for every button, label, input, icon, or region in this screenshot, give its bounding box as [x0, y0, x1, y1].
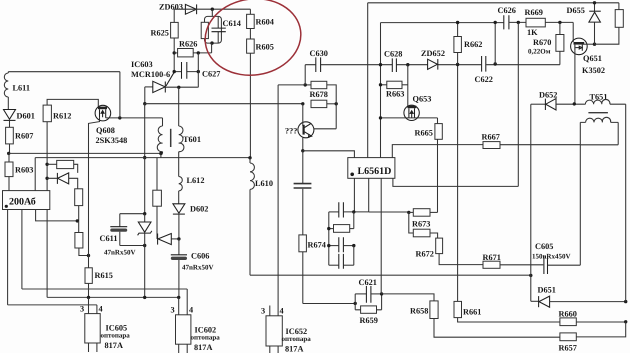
wire top cluster y=9.2 — [174, 8, 250, 10]
svg-text:L610: L610 — [255, 179, 273, 188]
svg-text:D651: D651 — [538, 286, 556, 295]
wire 200A6 pin to bus line1 — [21, 210, 23, 290]
diode bridge-D (unlabeled) — [47, 173, 78, 189]
svg-text:R625: R625 — [151, 29, 169, 38]
wire 200A6 pin jog to rectifier column — [36, 210, 78, 221]
node C614 top feed — [211, 8, 214, 11]
diode D602 — [173, 204, 209, 239]
node line2/IC602 pin3 — [177, 296, 180, 299]
bus line3 y=304.9 — [8, 304, 97, 306]
node Q608 drain / snubber feed — [118, 116, 121, 119]
node Q651 source / T651 primary — [573, 102, 576, 105]
resistor R663 — [381, 81, 408, 98]
node D651 right on HV column — [624, 300, 627, 303]
svg-text:ZD652: ZD652 — [421, 49, 445, 58]
node D602/C606 junction — [177, 237, 180, 240]
wire L6561D right pin to feedback column — [393, 178, 518, 186]
svg-text:оптопара: оптопара — [191, 334, 221, 342]
svg-text:IC603: IC603 — [131, 60, 153, 69]
svg-text:3: 3 — [171, 306, 175, 315]
node T601 primary bottom on bus — [159, 152, 162, 155]
fuse box 200A6 — [3, 191, 50, 210]
zener diode ZD603 — [159, 3, 197, 15]
wire thyristor anode drop to main h-wire — [144, 87, 146, 104]
svg-text:D602: D602 — [190, 205, 208, 214]
svg-text:Q653: Q653 — [413, 95, 432, 104]
node ZD652 left / gate column — [406, 63, 409, 66]
wire L6561D pin riser x=381 lower — [380, 178, 382, 294]
transistor Q653 — [404, 95, 432, 121]
wire C621 node to R658 — [382, 294, 434, 301]
wire C626 column — [494, 22, 496, 64]
resistor R626 — [174, 40, 211, 57]
diode D655 — [567, 3, 601, 44]
svg-text:L612: L612 — [187, 176, 205, 185]
svg-text:150nRx450V: 150nRx450V — [532, 253, 571, 261]
node C621/R659 left — [354, 302, 357, 305]
svg-text:ZD603: ZD603 — [159, 3, 183, 12]
svg-text:R674: R674 — [308, 241, 326, 250]
wire line1 corner to IC602 pin4 — [186, 289, 188, 315]
svg-text:R658: R658 — [410, 307, 428, 316]
wire feedback column x=518.3 — [517, 22, 519, 186]
resistor R607 — [6, 127, 34, 153]
wire startup node to aux riser — [278, 84, 305, 86]
node R625/R626 junction — [173, 51, 176, 54]
wire low rail left corner into 200A6 — [34, 158, 36, 191]
diode horizontal (snubber, unlabeled) — [158, 234, 179, 245]
node R673 left — [407, 211, 410, 214]
svg-text:R657: R657 — [559, 344, 577, 353]
node low rail / zener column — [143, 156, 146, 159]
svg-text:R607: R607 — [15, 132, 33, 141]
svg-text:3: 3 — [261, 307, 265, 316]
wire main horizontal y=103.7 — [145, 103, 303, 105]
parallel RC C614 — [201, 9, 241, 53]
node C621 right / pin riser — [380, 292, 383, 295]
node rectifier diode left — [45, 177, 48, 180]
capacitor C621 — [355, 278, 381, 303]
wire startup node to C630 wire — [304, 65, 306, 85]
resistor R671 — [483, 253, 544, 268]
svg-text:L6561D: L6561D — [358, 166, 392, 177]
wire C627 right column to cathode wire — [197, 53, 199, 87]
wire L6561D top pin4 to R667 rail — [392, 145, 483, 158]
capacitor C606 — [171, 239, 214, 298]
wire top-left horizontal y=71.7 — [8, 71, 120, 73]
node thyristor cathode / T601 aux top — [177, 86, 180, 89]
node Q653 left on pin riser — [379, 116, 382, 119]
svg-text:оптопара: оптопара — [101, 332, 131, 340]
resistor bridge-R (unlabeled) — [47, 160, 78, 173]
resistor HV (top right, unlabeled) — [595, 3, 624, 44]
svg-text:1K: 1K — [527, 28, 538, 37]
resistor R678 — [310, 90, 337, 108]
transformer T601 — [157, 87, 201, 176]
resistor R625 — [151, 9, 179, 71]
wire output bus y=275.4 — [250, 274, 531, 276]
resistor R658 — [410, 301, 560, 337]
resistor R603 — [5, 153, 33, 190]
wire aux rail riser x=278 (to IC652 pin4) — [277, 85, 279, 316]
node output bus / D651 column — [529, 274, 532, 277]
svg-text:47nRx50V: 47nRx50V — [104, 249, 136, 257]
svg-text:T601: T601 — [183, 135, 201, 144]
node comp resistor left — [327, 227, 330, 230]
svg-text:Q651: Q651 — [583, 54, 602, 63]
resistor R661 — [454, 65, 560, 323]
resistor snubber (x=157, unlabeled) — [153, 158, 162, 239]
svg-text:R673: R673 — [412, 220, 430, 229]
resistor R615 — [85, 256, 113, 298]
node rectifier mid — [76, 219, 79, 222]
svg-text:4: 4 — [99, 305, 103, 314]
IC U651 L6561D — [348, 158, 395, 179]
wire D651 column — [530, 104, 532, 301]
svg-text:0,22Ом: 0,22Ом — [528, 48, 551, 56]
node low rail / L610 column — [248, 156, 251, 159]
wire snubber riser x=119.9 — [119, 72, 121, 118]
wire R612 column through bus into 200A6 — [46, 122, 48, 191]
svg-text:R669: R669 — [525, 8, 543, 17]
svg-text:C627: C627 — [202, 70, 220, 79]
svg-text:C605: C605 — [535, 242, 553, 251]
node emitter / VCC feed — [301, 149, 304, 152]
wire comp node down to resistor branch — [353, 212, 355, 229]
svg-text:C606: C606 — [191, 252, 209, 261]
svg-text:R670: R670 — [533, 38, 551, 47]
node R662 top — [456, 21, 459, 24]
wire L6561D top pin3 riser x=380.5 — [380, 23, 382, 158]
inductor L611 — [4, 72, 30, 110]
inductor L612 — [179, 176, 205, 204]
optocoupler IC602 — [171, 306, 221, 353]
red annotation ellipse — [200, 0, 306, 81]
wire Q653 rail y=117.9 — [381, 117, 438, 119]
node rectifier resistor left — [45, 163, 48, 166]
svg-text:оптопара: оптопара — [282, 335, 312, 343]
node C627 right — [197, 70, 200, 73]
svg-text:817A: 817A — [105, 341, 123, 350]
wire Q608 drain to T601 primary top — [106, 117, 163, 119]
wire L6561D bottom pin x=368.7 — [368, 178, 370, 212]
svg-text:C614: C614 — [223, 19, 241, 28]
svg-text:R604: R604 — [256, 18, 274, 27]
node R678 left on main wire — [301, 102, 304, 105]
resistor R674 — [299, 235, 326, 304]
capacitor C622 — [475, 56, 493, 84]
diode D601 — [4, 110, 35, 128]
capacitor C627 — [174, 62, 220, 79]
capacitor C611 — [100, 214, 145, 257]
node: junction R607/R603 on mains bus — [7, 152, 10, 155]
node comp top — [352, 210, 355, 213]
node R626 right / C627 column — [197, 51, 200, 54]
wire IC602 pin3 — [178, 297, 180, 314]
node D655 top on top rail — [593, 1, 596, 4]
wire line2 left riser from 200A6 — [46, 210, 48, 298]
capacitor C605 — [532, 145, 580, 274]
node R678 right — [335, 102, 338, 105]
resistor R669 — [525, 8, 546, 37]
svg-text:C622: C622 — [475, 75, 493, 84]
resistor R660 — [559, 310, 626, 326]
optocoupler IC605 — [80, 305, 130, 353]
zener diode (unlabeled) — [138, 214, 152, 246]
wire emitter node to L6561D pin — [303, 151, 355, 158]
capacitor C630 — [310, 49, 328, 72]
wire C630 rail y=64.7 — [305, 64, 560, 66]
capacitor comp3 — [329, 254, 354, 269]
svg-text:R626: R626 — [179, 40, 197, 49]
capacitor supply (unlabeled) — [294, 151, 312, 235]
wire L6561D top pin2 long riser x=367.7 — [367, 3, 369, 158]
resistor R665 — [415, 118, 443, 212]
svg-text:MCR100-6: MCR100-6 — [131, 70, 170, 79]
svg-text:C621: C621 — [359, 278, 377, 287]
wire R612 top to Q608 gate — [47, 99, 98, 108]
svg-text:R615: R615 — [95, 271, 113, 280]
wire gate rail y=22.5 — [381, 21, 573, 23]
node main wire / anode column — [143, 102, 146, 105]
thyristor IC603 — [145, 72, 198, 92]
wire IC605 pin4 — [96, 305, 98, 314]
svg-text:L611: L611 — [13, 84, 31, 93]
node line2/R615 — [87, 296, 90, 299]
svg-text:47nRx50V: 47nRx50V — [182, 264, 214, 272]
wire line3 left riser — [7, 210, 9, 305]
node C622 right / C626 column — [494, 62, 497, 65]
svg-text:C611: C611 — [100, 234, 118, 243]
node C626 left — [494, 21, 497, 24]
bus line1 y=289 — [22, 288, 187, 290]
node zener top — [143, 212, 146, 215]
compensation cap cluster left rail — [328, 212, 330, 265]
node zener bottom — [143, 244, 146, 247]
node line2/zener column — [143, 296, 146, 299]
wire Q608 source down — [89, 118, 100, 256]
svg-text:R671: R671 — [483, 253, 501, 262]
svg-text:K3502: K3502 — [582, 66, 605, 75]
wire top rail y=2.8 — [368, 2, 619, 4]
inductor L610 — [250, 158, 273, 275]
svg-text:R660: R660 — [559, 310, 577, 319]
capacitor comp1 — [329, 202, 369, 217]
wire mult wire y=212 to R673 — [369, 211, 409, 213]
node Q651 drain / D655 — [593, 43, 596, 46]
svg-text:R667: R667 — [482, 133, 500, 142]
resistor R662 — [454, 23, 483, 65]
wire IC605 pin3 — [88, 297, 90, 313]
resistor startup (upper, unlabeled) — [305, 81, 336, 104]
svg-text:R603: R603 — [15, 166, 33, 175]
svg-text:R661: R661 — [463, 308, 481, 317]
transistor error amp (???) — [285, 104, 314, 151]
resistor R667 — [482, 133, 581, 149]
transistor Q608 — [95, 105, 127, 145]
wire HV sense column — [625, 104, 627, 301]
resistor R659 — [355, 294, 381, 325]
svg-text:D655: D655 — [567, 6, 585, 15]
capacitor C626 — [498, 6, 516, 29]
svg-text:R605: R605 — [256, 43, 274, 52]
node comp2 right — [352, 244, 355, 247]
svg-text:R659: R659 — [360, 316, 378, 325]
wire zener column to C611 cluster — [144, 158, 146, 214]
svg-text:R663: R663 — [386, 90, 404, 99]
svg-text:R662: R662 — [464, 40, 482, 49]
resistor R673 — [409, 209, 438, 229]
resistor vertical (rectifier chain upper) — [75, 189, 83, 221]
svg-text:2SK3548: 2SK3548 — [96, 136, 128, 145]
resistor vertical (rectifier chain lower) — [75, 221, 89, 256]
wire collector to R678 right column — [314, 104, 336, 129]
svg-text:R678: R678 — [310, 90, 328, 99]
svg-text:200Аб: 200Аб — [9, 197, 36, 208]
svg-text:C628: C628 — [384, 50, 402, 59]
svg-text:817A: 817A — [285, 345, 303, 353]
resistor R657 — [559, 322, 626, 353]
svg-text:Q608: Q608 — [96, 126, 115, 135]
wire anode column down to low-side rail — [144, 104, 146, 158]
node R662 bottom on rail — [456, 63, 459, 66]
wire mains bus y=153.4 — [9, 152, 161, 154]
capacitor comp2 — [329, 237, 354, 252]
svg-text:817A: 817A — [194, 343, 212, 352]
svg-text:C630: C630 — [310, 49, 328, 58]
node R663 left on pin riser — [379, 83, 382, 86]
svg-text:???: ??? — [285, 127, 297, 136]
svg-text:D601: D601 — [17, 112, 35, 121]
diode D652 — [531, 91, 586, 111]
wire R674 column corner to C621 cluster — [303, 303, 355, 305]
svg-text:R672: R672 — [416, 250, 434, 259]
resistor comp (unlabeled) — [329, 225, 354, 233]
transformer T651 — [580, 93, 625, 145]
node R660 right on HV column — [624, 320, 627, 323]
svg-text:R665: R665 — [415, 129, 433, 138]
resistor divider lower (unlabeled) — [409, 212, 438, 238]
wire bus stub to low rail — [160, 154, 162, 158]
svg-text:3: 3 — [80, 305, 84, 314]
zener diode ZD652 — [421, 49, 445, 70]
svg-text:4: 4 — [280, 307, 284, 316]
node Q608 source / R615 top — [87, 254, 90, 257]
wire comp2 right rail — [353, 246, 355, 266]
svg-text:C626: C626 — [498, 6, 516, 15]
capacitor C628 — [384, 50, 402, 73]
diode D651 — [531, 286, 626, 308]
wire R663 right to multiplier rail and Q653 gate — [407, 65, 409, 107]
transistor Q651 — [571, 22, 605, 103]
node C627 left — [173, 70, 176, 73]
node comp2 left — [327, 244, 330, 247]
node R670 top — [558, 21, 561, 24]
bus line2 y=297.4 — [47, 296, 179, 298]
optocoupler IC652 — [261, 306, 311, 353]
node startup resistor left — [304, 83, 307, 86]
wire zener column to bus line2 — [144, 246, 146, 298]
resistor R672 — [416, 238, 484, 265]
resistor R604 — [247, 9, 274, 39]
svg-text:D652: D652 — [539, 91, 557, 100]
resistor R670 — [528, 22, 564, 64]
svg-text:R612: R612 — [53, 112, 71, 121]
resistor R612 — [43, 105, 71, 122]
resistor R605 — [247, 39, 274, 158]
node C626 right / feedback column top — [517, 21, 520, 24]
wire low-side rail y=157.6 — [35, 157, 250, 159]
node C628 left on rail — [379, 63, 382, 66]
wire L6561D pin riser corner to top wire — [380, 22, 383, 24]
wire L6561D bottom pin to comp node — [353, 178, 355, 212]
svg-text:4: 4 — [189, 306, 193, 315]
